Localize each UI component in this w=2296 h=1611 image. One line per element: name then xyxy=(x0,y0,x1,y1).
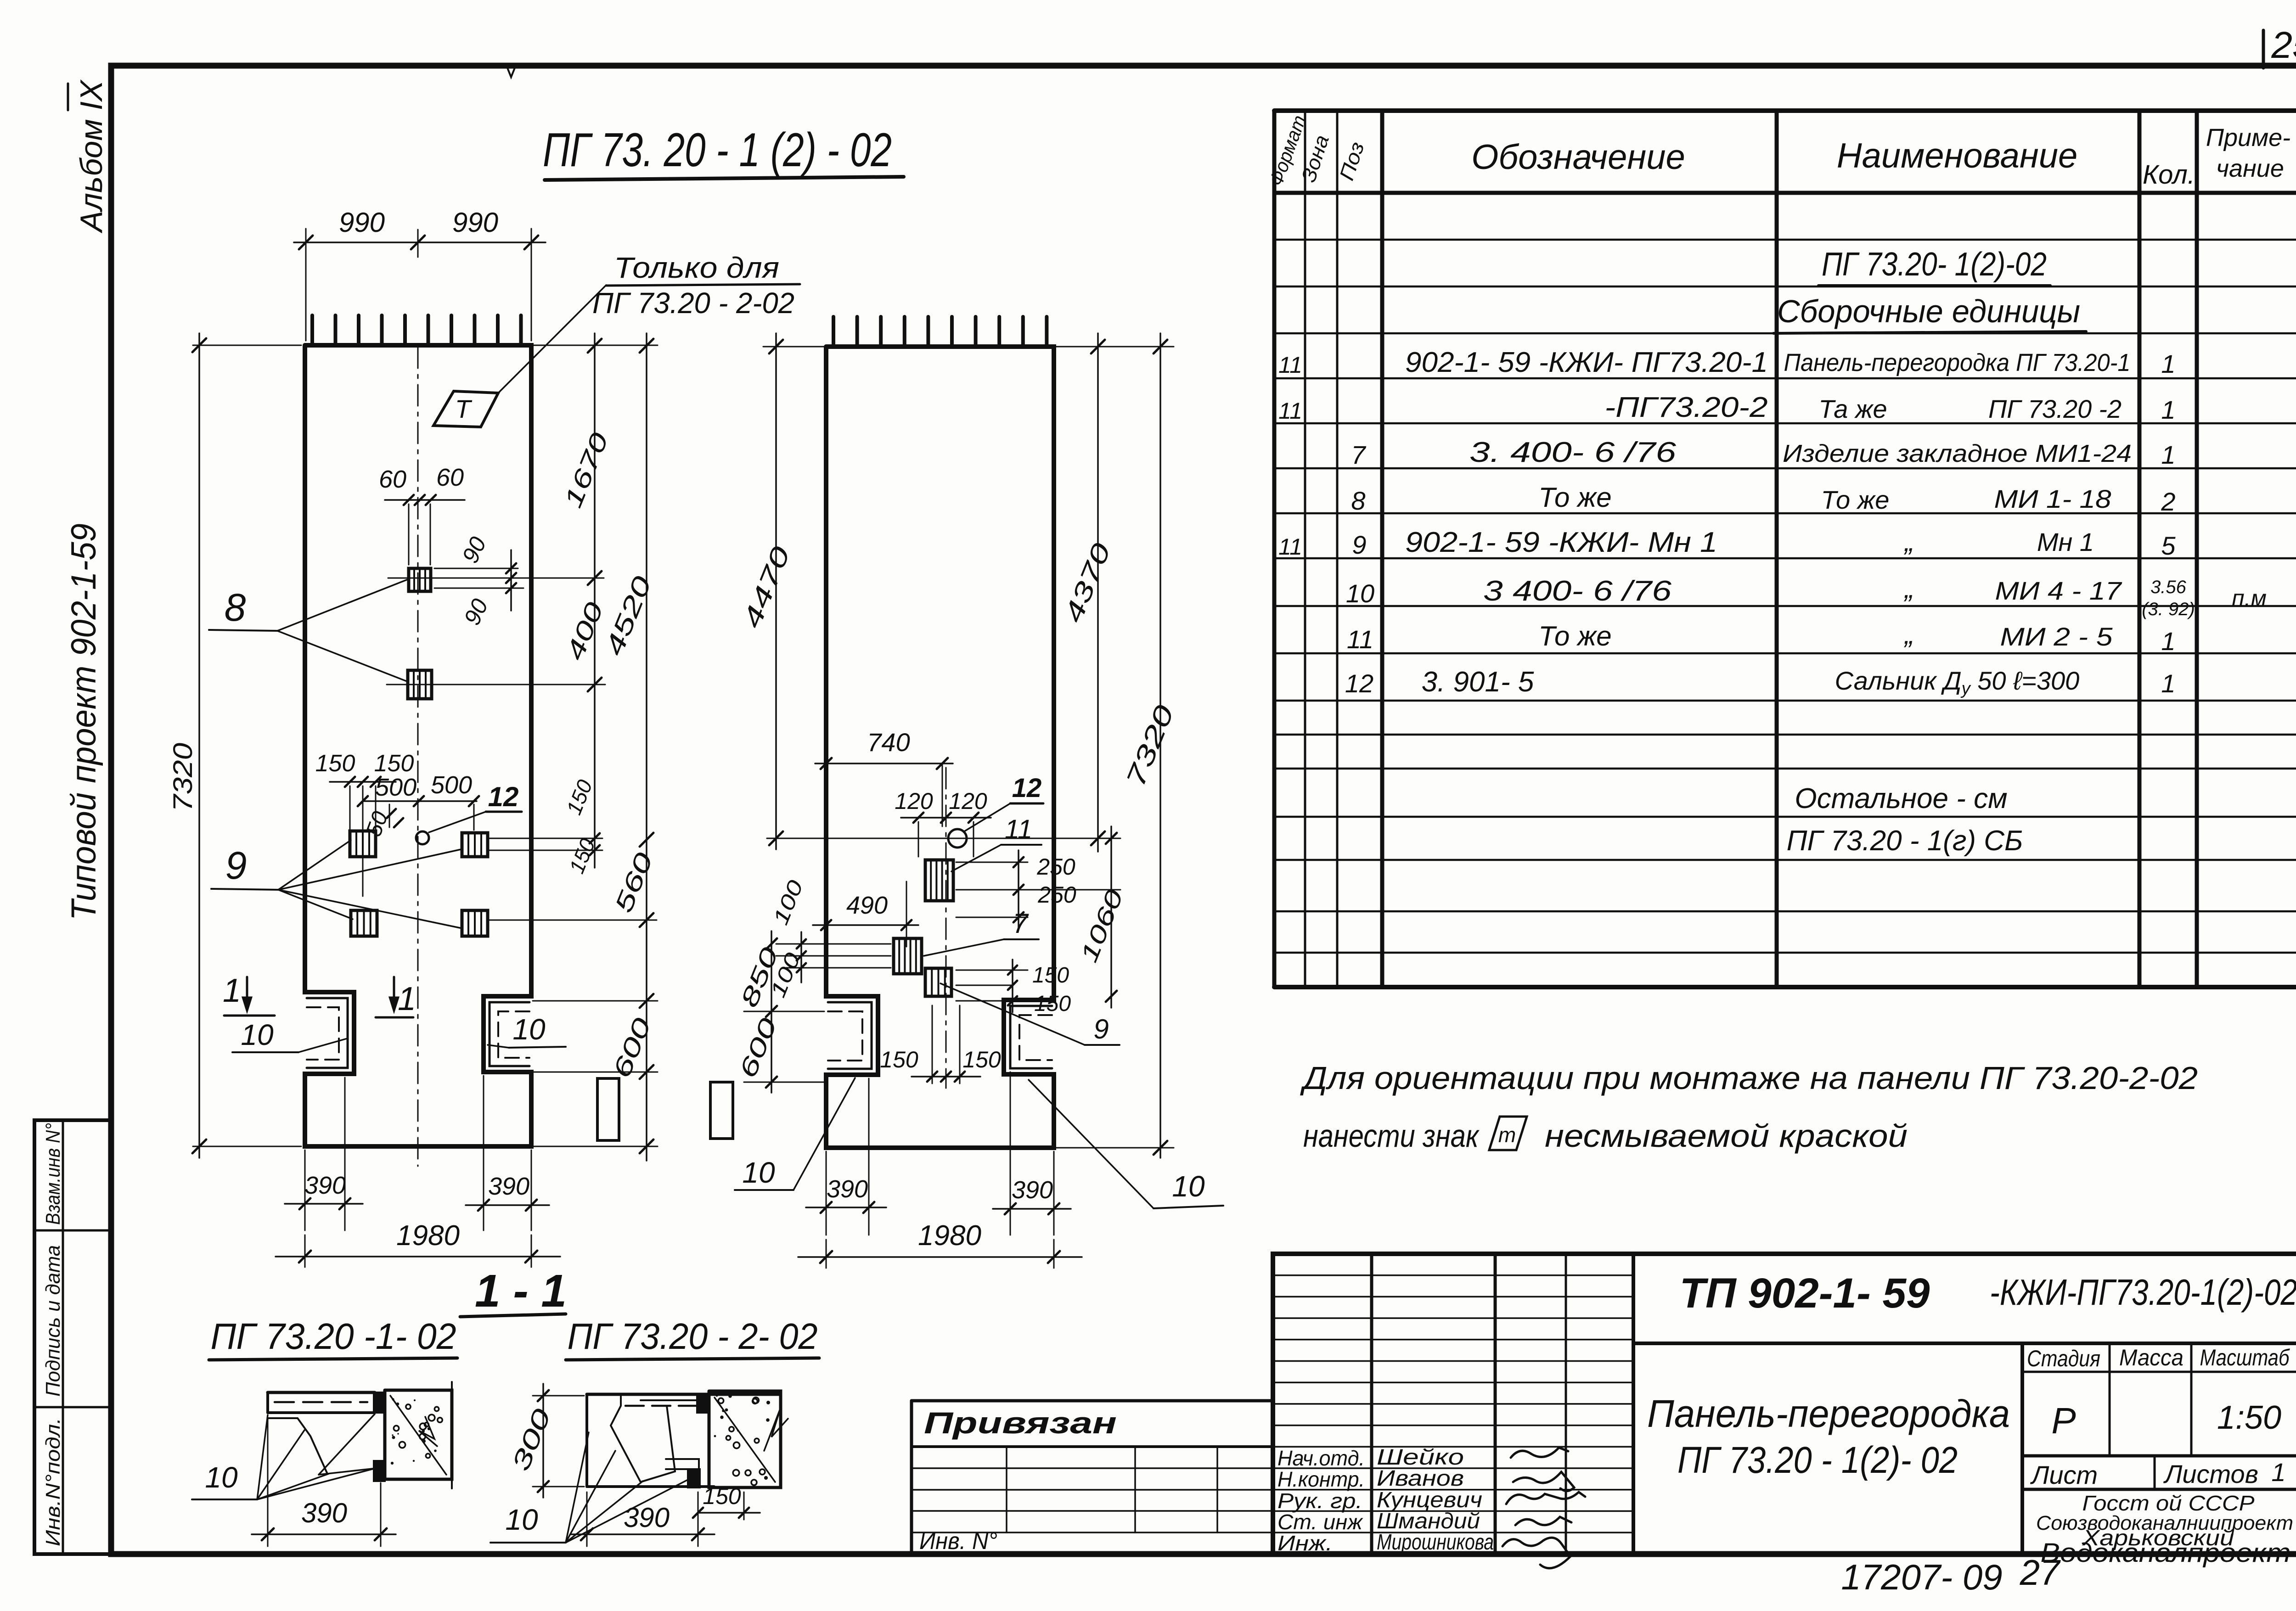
svg-text:150: 150 xyxy=(880,1047,918,1072)
svg-text:10: 10 xyxy=(742,1156,775,1189)
svg-text:Подпись и дата: Подпись и дата xyxy=(42,1245,64,1397)
svg-text:1: 1 xyxy=(398,981,416,1017)
svg-text:ПГ 73. 20 - 1 (2) - 02: ПГ 73. 20 - 1 (2) - 02 xyxy=(543,123,892,177)
svg-text:1: 1 xyxy=(223,972,241,1009)
dim 990 990 top xyxy=(305,229,307,341)
svg-text:11: 11 xyxy=(1278,534,1302,560)
dim 60 60 embed8 xyxy=(408,504,410,565)
svg-text:7: 7 xyxy=(1013,908,1029,939)
dim 150 150 embed9 right xyxy=(956,970,1028,971)
section 2 upper formwork strip xyxy=(641,1399,707,1401)
svg-text:ПГ 73.20 - 2-02: ПГ 73.20 - 2-02 xyxy=(592,286,794,320)
svg-text:-ПГ73.20-2: -ПГ73.20-2 xyxy=(1605,392,1768,423)
embed 11 МИ2-5 xyxy=(925,860,953,901)
svg-text:Та же: Та же xyxy=(1818,394,1887,423)
notch extension lines right xyxy=(533,1000,658,1002)
svg-text:120: 120 xyxy=(949,788,987,814)
bottom dim 1980 right panel xyxy=(826,1240,827,1268)
svg-text:3. 901- 5: 3. 901- 5 xyxy=(1422,666,1534,698)
svg-text:-КЖИ-ПГ73.20-1(2)-02: -КЖИ-ПГ73.20-1(2)-02 xyxy=(1990,1272,2296,1313)
svg-text:1: 1 xyxy=(2161,395,2175,424)
svg-text:ПГ 73.20 - 1(2)- 02: ПГ 73.20 - 1(2)- 02 xyxy=(1677,1439,1958,1481)
section 1 joint detail xyxy=(268,1418,327,1473)
T mark parallelogram xyxy=(433,391,498,427)
bottom dim 1980 xyxy=(304,1235,306,1267)
svg-text:390: 390 xyxy=(488,1173,529,1200)
svg-text:150: 150 xyxy=(1034,992,1071,1016)
svg-text:390: 390 xyxy=(827,1175,868,1203)
embed 8 lower xyxy=(408,670,432,699)
svg-text:25: 25 xyxy=(2271,24,2296,66)
svg-text:Инж.: Инж. xyxy=(1277,1531,1333,1555)
svg-text:1: 1 xyxy=(2271,1458,2285,1487)
svg-text:Инв. N°: Инв. N° xyxy=(919,1528,997,1555)
svg-text:3. 400- 6 /76: 3. 400- 6 /76 xyxy=(1469,437,1677,468)
svg-text:МИ 1- 18: МИ 1- 18 xyxy=(1994,484,2111,513)
svg-text:902-1- 59 -КЖИ- ПГ73.20-1: 902-1- 59 -КЖИ- ПГ73.20-1 xyxy=(1405,347,1768,378)
dim 250 250 xyxy=(956,862,1028,863)
svg-text:11: 11 xyxy=(1347,625,1373,654)
svg-text:МИ 2 - 5: МИ 2 - 5 xyxy=(2000,622,2113,651)
svg-text:1 - 1: 1 - 1 xyxy=(475,1265,567,1317)
svg-text:8: 8 xyxy=(225,586,246,629)
svg-text:9: 9 xyxy=(1352,530,1366,559)
section mark 1 middle xyxy=(393,977,395,1008)
svg-text:Остальное - см: Остальное - см xyxy=(1795,783,2007,814)
gland circle pos 12 right xyxy=(948,829,967,848)
svg-text:150: 150 xyxy=(374,750,414,777)
svg-text:1: 1 xyxy=(2161,440,2175,469)
dim 90 90 embed8 xyxy=(434,568,518,569)
svg-text:несмываемой краской: несмываемой краской xyxy=(1545,1118,1908,1154)
left notch frame xyxy=(307,998,348,1068)
stamp Стадия Масса Масштаб header xyxy=(2022,1371,2296,1373)
svg-text:ПГ 73.20 -2: ПГ 73.20 -2 xyxy=(1988,394,2122,423)
bottom dim 390 right right panel xyxy=(1010,1072,1011,1235)
section 1 dim 390 xyxy=(267,1419,269,1546)
right panel top dowels xyxy=(832,317,835,346)
page number 125 xyxy=(2262,30,2265,68)
svg-text:Для ориентации при монта: Для ориентации при монтаже на панели ПГ … xyxy=(1300,1060,2198,1096)
section 2 outline xyxy=(587,1393,781,1396)
svg-text:990: 990 xyxy=(339,207,385,238)
svg-text:Лист: Лист xyxy=(2030,1460,2098,1489)
svg-text:Масштаб: Масштаб xyxy=(2200,1345,2290,1370)
svg-text:нанести знак: нанести знак xyxy=(1303,1118,1480,1154)
svg-text:12: 12 xyxy=(1012,773,1042,803)
svg-text:10: 10 xyxy=(205,1461,238,1494)
section 1 embed plates black xyxy=(374,1392,384,1413)
left panel centerline xyxy=(417,347,419,1166)
svg-text:Привязан: Привязан xyxy=(924,1406,1117,1440)
dim 500 500 xyxy=(363,800,477,802)
svg-text:1: 1 xyxy=(2161,669,2175,698)
section 2 dim 150 xyxy=(743,1492,745,1520)
section 2 concrete block xyxy=(709,1391,781,1488)
svg-text:150: 150 xyxy=(315,750,355,777)
svg-text:Ст. инж: Ст. инж xyxy=(1277,1510,1363,1534)
svg-text:Рук. гр.: Рук. гр. xyxy=(1277,1489,1362,1513)
right dim line A 1670 400 150 150 xyxy=(594,333,596,868)
dim 4370 7320 right xyxy=(1056,346,1174,348)
svg-text:1:50: 1:50 xyxy=(2217,1399,2281,1436)
svg-text:Взам.инв N°: Взам.инв N° xyxy=(42,1123,64,1225)
svg-text:150: 150 xyxy=(703,1483,741,1509)
svg-text:7320: 7320 xyxy=(168,743,198,812)
svg-text:(3. 92): (3. 92) xyxy=(2142,599,2195,619)
svg-text:250: 250 xyxy=(1036,854,1075,880)
svg-text:12: 12 xyxy=(488,781,519,812)
svg-text:11: 11 xyxy=(1278,398,1302,424)
specification table grid xyxy=(1274,108,2296,113)
svg-text:390: 390 xyxy=(1012,1176,1053,1204)
svg-text:500: 500 xyxy=(375,774,416,801)
svg-text:МИ 4 - 17: МИ 4 - 17 xyxy=(1995,576,2122,605)
section 2 lower formwork strip xyxy=(666,1459,699,1469)
dim 7320 left xyxy=(193,345,301,346)
svg-text:Кол.: Кол. xyxy=(2143,160,2195,190)
svg-text:500: 500 xyxy=(431,771,472,799)
section 2 dim 390 xyxy=(586,1492,588,1546)
embed 9 right panel xyxy=(925,968,951,996)
small vent rect inside left panel xyxy=(597,1078,619,1140)
dim 50 xyxy=(389,804,390,827)
Привязан box xyxy=(912,1399,1273,1403)
svg-text:490: 490 xyxy=(846,892,888,919)
section 2 dim 300 xyxy=(533,1395,584,1397)
embed 7 МИ1-24 xyxy=(894,938,922,974)
svg-text:150: 150 xyxy=(962,1047,1001,1072)
gland circle pos 12 xyxy=(416,831,429,844)
svg-text:Панель-перегородка: Панель-перегородка xyxy=(1647,1392,2010,1435)
svg-text:5: 5 xyxy=(2161,531,2176,560)
svg-text:Водоканалпроект: Водоканалпроект xyxy=(2041,1538,2291,1568)
small vent rect left of right panel xyxy=(710,1082,733,1139)
Привязан grid xyxy=(912,1445,1273,1448)
dim 150 150 embeds9 xyxy=(349,786,351,829)
svg-text:7: 7 xyxy=(1351,440,1366,469)
bottom dim 390 left right panel xyxy=(826,1151,827,1235)
svg-text:2: 2 xyxy=(2161,487,2175,516)
dim 740 xyxy=(826,753,827,803)
svg-text:Мн 1: Мн 1 xyxy=(2037,528,2094,556)
embed 8 upper xyxy=(409,568,431,591)
svg-text:1980: 1980 xyxy=(396,1220,460,1252)
dim 150 150 bottom center xyxy=(932,1005,933,1083)
svg-text:12: 12 xyxy=(1345,669,1373,698)
note T mark parallelogram xyxy=(1489,1117,1527,1150)
svg-text:То же: То же xyxy=(1821,485,1890,514)
embed7 extension lines left xyxy=(776,943,891,945)
svg-text:Альбом IX: Альбом IX xyxy=(74,79,109,234)
svg-text:ПГ 73.20 - 2- 02: ПГ 73.20 - 2- 02 xyxy=(568,1316,818,1357)
dim 490 xyxy=(826,911,827,947)
right dim line B 4520 560 600 xyxy=(646,333,647,1161)
svg-text:„: „ xyxy=(1903,526,1914,557)
svg-text:902-1- 59 -КЖИ- Мн 1: 902-1- 59 -КЖИ- Мн 1 xyxy=(1405,527,1717,558)
left panel top dowels xyxy=(310,315,314,344)
svg-text:„: „ xyxy=(1903,619,1914,650)
dim 120 120 xyxy=(918,822,919,857)
svg-text:Т: Т xyxy=(455,394,473,423)
bottom dim 390 right xyxy=(483,1076,484,1230)
top right extension line xyxy=(533,345,658,346)
svg-text:Стадия: Стадия xyxy=(2027,1346,2100,1371)
svg-text:ПГ 73.20- 1(2)-02: ПГ 73.20- 1(2)-02 xyxy=(1822,246,2047,283)
svg-text:Инв.N°подл.: Инв.N°подл. xyxy=(42,1418,64,1546)
svg-text:17207- 09: 17207- 09 xyxy=(1841,1557,2002,1597)
dim 1060 xyxy=(1110,826,1112,1008)
svg-text:т: т xyxy=(1498,1123,1516,1147)
right panel outline xyxy=(826,347,1054,1148)
embeds 9 group xyxy=(350,831,376,857)
dim 100 100 left xyxy=(800,932,802,982)
title block left grid rows xyxy=(1273,1274,1633,1276)
svg-text:10: 10 xyxy=(241,1018,274,1051)
title block outer xyxy=(1273,1254,2296,1554)
svg-text:60: 60 xyxy=(379,466,406,493)
svg-text:1980: 1980 xyxy=(918,1220,981,1252)
embed9 extension lines xyxy=(488,838,602,839)
section 2 embed plates black xyxy=(697,1394,708,1413)
svg-text:ПГ 73.20 - 1(г) СБ: ПГ 73.20 - 1(г) СБ xyxy=(1787,825,2023,857)
dim 850 600 left xyxy=(771,931,772,1093)
embed8 axis lines xyxy=(388,578,604,579)
svg-text:10: 10 xyxy=(1172,1170,1205,1203)
section 1 concrete block xyxy=(385,1390,452,1479)
section 2 break arrow xyxy=(764,1408,788,1451)
svg-text:„: „ xyxy=(1903,573,1914,604)
svg-text:990: 990 xyxy=(452,207,498,238)
section 1 slab xyxy=(268,1391,375,1394)
svg-text:3 400- 6 /76: 3 400- 6 /76 xyxy=(1483,575,1672,607)
bottom dim 390 left xyxy=(304,1150,306,1230)
svg-text:390: 390 xyxy=(301,1498,347,1528)
svg-text:9: 9 xyxy=(225,844,247,887)
svg-text:Иванов: Иванов xyxy=(1377,1466,1464,1491)
svg-text:250: 250 xyxy=(1037,882,1076,908)
right notch frame right panel xyxy=(1010,1006,1052,1068)
svg-text:60: 60 xyxy=(436,464,464,491)
svg-text:Обозначение: Обозначение xyxy=(1471,138,1685,177)
title block left grid verticals xyxy=(1370,1254,1373,1554)
svg-text:Н.контр.: Н.контр. xyxy=(1277,1467,1365,1491)
svg-text:8: 8 xyxy=(1351,486,1365,515)
svg-text:ПГ 73.20 -1- 02: ПГ 73.20 -1- 02 xyxy=(211,1316,456,1357)
sidebar stamp table xyxy=(34,1120,111,1554)
svg-text:Только для: Только для xyxy=(614,251,779,284)
dim 4470 left xyxy=(763,346,824,348)
svg-text:То же: То же xyxy=(1538,621,1611,651)
svg-text:10: 10 xyxy=(505,1503,538,1536)
svg-text:Панель-перегородка ПГ 73.20-1: Панель-перегородка ПГ 73.20-1 xyxy=(1784,349,2131,376)
gland axis line xyxy=(767,838,1120,839)
svg-text:11: 11 xyxy=(1005,814,1032,844)
svg-text:Типовой проект 902-1-59: Типовой проект 902-1-59 xyxy=(64,523,103,921)
right panel centerline xyxy=(945,768,947,1088)
svg-text:390: 390 xyxy=(304,1172,346,1199)
svg-text:Мирошникова: Мирошникова xyxy=(1377,1530,1494,1555)
section 1 break arrow xyxy=(419,1417,437,1446)
svg-text:Нач.отд.: Нач.отд. xyxy=(1277,1446,1365,1470)
svg-text:Изделие закладное МИ1-24: Изделие закладное МИ1-24 xyxy=(1783,440,2132,467)
svg-text:Сборочные единицы: Сборочные единицы xyxy=(1777,293,2080,329)
svg-text:10: 10 xyxy=(1346,579,1374,608)
svg-text:Сальник Ду 50 ℓ=300: Сальник Ду 50 ℓ=300 xyxy=(1835,666,2080,698)
svg-text:740: 740 xyxy=(867,728,910,757)
left panel outline xyxy=(305,345,531,1146)
svg-text:3.56: 3.56 xyxy=(2150,577,2187,597)
svg-text:То же: То же xyxy=(1538,482,1611,513)
section 2 void trapezoid xyxy=(611,1396,675,1482)
svg-text:Р: Р xyxy=(2051,1400,2076,1441)
svg-text:10: 10 xyxy=(512,1013,546,1046)
right notch frame xyxy=(490,1002,529,1066)
left notch frame right panel xyxy=(828,1002,872,1069)
svg-text:чание: чание xyxy=(2216,155,2284,182)
top border alignment mark xyxy=(506,66,516,77)
svg-text:1: 1 xyxy=(2161,349,2175,378)
svg-text:Масса: Масса xyxy=(2119,1345,2183,1370)
svg-text:390: 390 xyxy=(624,1502,670,1533)
svg-text:150: 150 xyxy=(1032,963,1069,988)
svg-text:ТП 902-1- 59: ТП 902-1- 59 xyxy=(1680,1270,1930,1317)
svg-text:11: 11 xyxy=(1278,352,1302,378)
svg-text:120: 120 xyxy=(895,788,933,814)
svg-text:п.м: п.м xyxy=(2232,585,2267,611)
svg-text:Листов: Листов xyxy=(2163,1459,2258,1488)
svg-text:Приме-: Приме- xyxy=(2206,124,2290,152)
svg-text:Наименование: Наименование xyxy=(1837,136,2078,175)
svg-text:1: 1 xyxy=(2161,627,2175,656)
svg-text:9: 9 xyxy=(1093,1014,1109,1044)
